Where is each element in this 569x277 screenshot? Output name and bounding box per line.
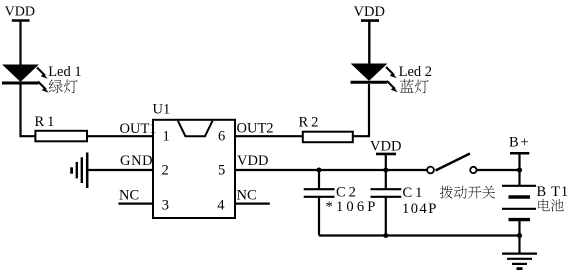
LED Led2 (diode symbol) <box>351 64 388 82</box>
wire R2 to Led2 cathode <box>353 84 369 136</box>
switch S1 throw contact <box>470 167 476 173</box>
svg-text:R 1: R 1 <box>35 114 55 130</box>
svg-text:R 2: R 2 <box>299 115 319 131</box>
svg-text:Led 2: Led 2 <box>399 64 432 80</box>
svg-text:B+: B+ <box>509 134 530 150</box>
power symbol VDD (above rail) <box>370 138 401 154</box>
wire C1 bottom lead <box>385 197 387 236</box>
resistor R2 body <box>303 132 353 143</box>
Led2 light arrow 2 <box>387 81 398 92</box>
label 蓝灯 (blue lamp) <box>400 79 429 93</box>
svg-text:NC: NC <box>119 188 139 204</box>
ground symbol (bottom-right) <box>502 254 537 269</box>
node B+ terminal <box>509 134 530 153</box>
wire bottom return (C2/C1 to battery minus) <box>319 234 520 236</box>
label 拨动开关 (toggle switch) <box>440 186 495 199</box>
svg-text:U1: U1 <box>153 102 171 118</box>
wire Led1 cathode to resistor R1 <box>21 84 36 136</box>
svg-text:5: 5 <box>218 163 225 179</box>
svg-text:VDD: VDD <box>370 138 401 154</box>
svg-text:Led 1: Led 1 <box>48 64 81 80</box>
power symbol VDD (top-left) <box>5 5 35 21</box>
svg-text:2: 2 <box>162 163 169 179</box>
Led2 light arrow 1 <box>386 67 397 78</box>
wire ground to U1 pin 2 (net GND) <box>88 169 153 171</box>
svg-text:3: 3 <box>162 198 169 214</box>
junction node at C1 top <box>383 168 388 173</box>
resistor R1 body <box>35 131 87 142</box>
svg-text:VDD: VDD <box>237 153 268 169</box>
label 电池 (battery) <box>538 199 563 212</box>
junction node at C2 top <box>317 168 322 173</box>
svg-text:6: 6 <box>218 129 225 145</box>
Led1 light arrow 2 <box>38 82 49 93</box>
wire C1 top lead <box>385 170 387 189</box>
svg-text:C 1: C 1 <box>403 185 423 201</box>
wire rail to battery top <box>518 170 520 186</box>
junction node at C1 bottom <box>383 233 388 238</box>
svg-text:*106P: *106P <box>326 199 379 215</box>
svg-text:VDD: VDD <box>354 4 385 20</box>
wire R1 to U1 pin 1 (node OUT1) <box>87 135 153 137</box>
junction node B+ rail <box>517 167 522 172</box>
capacitor C2 plates <box>304 189 335 197</box>
capacitor C1 plates <box>371 189 402 197</box>
wire battery bottom lead <box>518 220 520 253</box>
svg-text:OUT1: OUT1 <box>120 121 157 137</box>
switch S1 pole contact <box>427 167 434 174</box>
power symbol VDD (top-right) <box>354 4 385 21</box>
Led1 light arrow 1 <box>37 68 48 79</box>
ground symbol (left, rotated) <box>72 153 88 189</box>
wire switch to node B+ <box>477 169 520 171</box>
svg-text:VDD: VDD <box>5 5 35 20</box>
wire VDD bar to rail <box>385 155 387 171</box>
wire stub pin 4 NC <box>235 203 270 205</box>
wire C2 top lead <box>318 170 320 189</box>
wire VDD to Led2 anode <box>368 21 370 65</box>
wire U1 pin 5 to switch (net VDD rail) <box>235 169 427 171</box>
svg-text:GND: GND <box>120 153 153 169</box>
wire VDD to Led1 anode <box>19 21 21 66</box>
wire U1 pin 6 to R2 (node OUT2) <box>235 135 303 137</box>
wire B+ to rail <box>518 154 520 171</box>
wire stub pin 3 NC <box>118 203 153 205</box>
wire C2 bottom lead <box>318 197 320 236</box>
label 绿灯 (green lamp) <box>49 80 78 94</box>
battery BT1 plates <box>502 186 536 220</box>
op-amp / IC U1 body <box>153 120 235 218</box>
svg-text:OUT2: OUT2 <box>237 121 274 137</box>
switch S1 lever <box>436 154 471 171</box>
junction node at battery bottom <box>517 233 522 238</box>
svg-text:NC: NC <box>237 188 257 204</box>
svg-text:B T1: B T1 <box>537 184 569 200</box>
svg-text:4: 4 <box>217 198 225 214</box>
LED Led1 (diode symbol) <box>2 65 39 83</box>
svg-text:1: 1 <box>163 129 170 145</box>
svg-text:104P: 104P <box>402 201 438 217</box>
